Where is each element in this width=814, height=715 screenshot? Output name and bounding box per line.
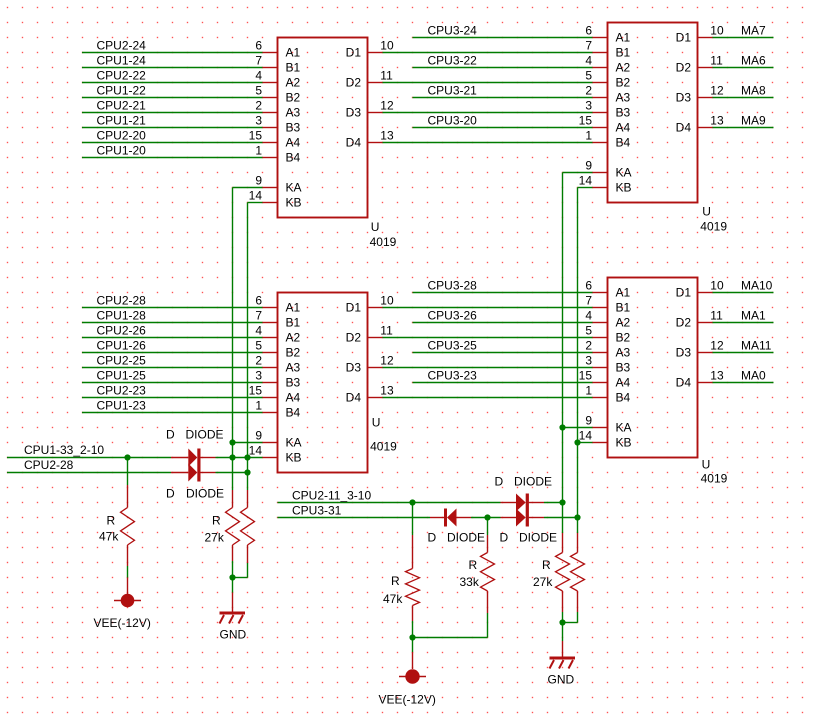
svg-text:14: 14 <box>249 444 263 458</box>
svg-text:B1: B1 <box>286 316 301 330</box>
svg-text:CPU2-28: CPU2-28 <box>24 458 74 472</box>
svg-text:A2: A2 <box>286 331 301 345</box>
svg-text:4019: 4019 <box>700 219 727 233</box>
svg-text:11: 11 <box>380 324 393 338</box>
svg-text:MA11: MA11 <box>741 339 772 353</box>
svg-text:GND: GND <box>548 673 575 687</box>
svg-text:KA: KA <box>616 421 632 435</box>
svg-text:B2: B2 <box>286 346 301 360</box>
svg-text:CPU1-28: CPU1-28 <box>97 309 147 323</box>
svg-text:D: D <box>428 531 437 545</box>
svg-text:DIODE: DIODE <box>514 475 552 489</box>
svg-text:A1: A1 <box>616 31 631 45</box>
svg-text:15: 15 <box>579 114 593 128</box>
svg-text:4019: 4019 <box>701 472 728 486</box>
svg-text:D2: D2 <box>346 331 362 345</box>
svg-text:3: 3 <box>585 99 592 113</box>
svg-text:6: 6 <box>585 279 592 293</box>
svg-text:KB: KB <box>616 436 632 450</box>
svg-text:4019: 4019 <box>370 440 397 454</box>
svg-text:MA0: MA0 <box>741 369 766 383</box>
svg-text:VEE(-12V): VEE(-12V) <box>94 616 151 630</box>
svg-text:1: 1 <box>585 129 592 143</box>
svg-text:DIODE: DIODE <box>186 427 224 441</box>
svg-text:B1: B1 <box>286 61 301 75</box>
svg-text:CPU2-28: CPU2-28 <box>97 294 147 308</box>
svg-text:D3: D3 <box>346 106 362 120</box>
svg-text:CPU1-22: CPU1-22 <box>97 84 147 98</box>
svg-text:A1: A1 <box>286 301 301 315</box>
svg-text:B2: B2 <box>616 76 631 90</box>
svg-text:A1: A1 <box>616 286 631 300</box>
svg-text:R: R <box>212 514 221 528</box>
svg-text:14: 14 <box>579 429 593 443</box>
svg-text:D: D <box>495 475 504 489</box>
svg-text:3: 3 <box>255 369 262 383</box>
svg-text:R: R <box>107 514 116 528</box>
svg-text:KB: KB <box>286 451 302 465</box>
svg-text:7: 7 <box>255 309 262 323</box>
svg-text:D1: D1 <box>346 301 362 315</box>
svg-text:A3: A3 <box>286 106 301 120</box>
svg-text:47k: 47k <box>383 592 403 606</box>
svg-text:D1: D1 <box>676 31 692 45</box>
svg-text:2: 2 <box>585 84 592 98</box>
svg-text:6: 6 <box>255 39 262 53</box>
svg-text:CPU3-26: CPU3-26 <box>428 309 478 323</box>
svg-text:CPU3-28: CPU3-28 <box>428 279 478 293</box>
svg-text:D3: D3 <box>676 91 692 105</box>
svg-text:1: 1 <box>255 399 262 413</box>
svg-text:A4: A4 <box>286 391 301 405</box>
svg-text:B1: B1 <box>616 46 631 60</box>
svg-text:A3: A3 <box>616 346 631 360</box>
svg-text:27k: 27k <box>533 575 553 589</box>
svg-text:CPU1-24: CPU1-24 <box>97 54 147 68</box>
svg-text:KA: KA <box>286 436 302 450</box>
svg-text:7: 7 <box>585 294 592 308</box>
svg-text:10: 10 <box>380 39 394 53</box>
svg-text:5: 5 <box>255 339 262 353</box>
svg-text:11: 11 <box>710 54 723 68</box>
svg-text:9: 9 <box>585 159 592 173</box>
svg-text:D2: D2 <box>676 316 692 330</box>
svg-text:9: 9 <box>585 414 592 428</box>
svg-text:A3: A3 <box>616 91 631 105</box>
svg-text:A1: A1 <box>286 46 301 60</box>
svg-text:13: 13 <box>380 384 394 398</box>
svg-text:D1: D1 <box>676 286 692 300</box>
svg-text:B1: B1 <box>616 301 631 315</box>
svg-text:5: 5 <box>255 84 262 98</box>
svg-text:3: 3 <box>585 354 592 368</box>
svg-text:CPU2-25: CPU2-25 <box>97 354 147 368</box>
svg-text:33k: 33k <box>460 575 480 589</box>
svg-text:4: 4 <box>585 309 592 323</box>
svg-text:CPU3-22: CPU3-22 <box>428 54 478 68</box>
svg-text:13: 13 <box>380 129 394 143</box>
svg-text:B4: B4 <box>286 151 301 165</box>
svg-text:14: 14 <box>579 174 593 188</box>
svg-text:4019: 4019 <box>370 235 397 249</box>
svg-text:D3: D3 <box>346 361 362 375</box>
svg-text:R: R <box>391 574 400 588</box>
svg-text:A2: A2 <box>616 61 631 75</box>
svg-text:D4: D4 <box>676 376 692 390</box>
svg-text:CPU1-20: CPU1-20 <box>97 144 147 158</box>
svg-text:D2: D2 <box>676 61 692 75</box>
svg-text:10: 10 <box>710 279 724 293</box>
svg-text:10: 10 <box>380 294 394 308</box>
svg-text:D4: D4 <box>346 136 362 150</box>
svg-text:B4: B4 <box>616 391 631 405</box>
svg-text:B3: B3 <box>286 376 301 390</box>
svg-text:9: 9 <box>255 429 262 443</box>
svg-text:5: 5 <box>585 69 592 83</box>
svg-text:B4: B4 <box>286 406 301 420</box>
svg-text:DIODE: DIODE <box>519 531 557 545</box>
svg-text:1: 1 <box>585 384 592 398</box>
svg-text:D2: D2 <box>346 76 362 90</box>
svg-text:MA8: MA8 <box>741 84 766 98</box>
svg-text:6: 6 <box>255 294 262 308</box>
svg-text:B3: B3 <box>286 121 301 135</box>
svg-text:D1: D1 <box>346 46 362 60</box>
svg-text:A2: A2 <box>286 76 301 90</box>
svg-text:15: 15 <box>249 384 263 398</box>
svg-text:MA10: MA10 <box>741 279 773 293</box>
svg-text:B2: B2 <box>286 91 301 105</box>
svg-text:CPU2-21: CPU2-21 <box>97 99 147 113</box>
svg-text:KA: KA <box>616 166 632 180</box>
svg-text:3: 3 <box>255 114 262 128</box>
svg-text:12: 12 <box>710 339 724 353</box>
svg-text:U: U <box>371 220 380 234</box>
svg-text:D3: D3 <box>676 346 692 360</box>
svg-text:R: R <box>542 558 551 572</box>
svg-text:2: 2 <box>255 99 262 113</box>
svg-text:CPU2-24: CPU2-24 <box>97 39 147 53</box>
svg-text:13: 13 <box>710 114 724 128</box>
svg-text:D4: D4 <box>676 121 692 135</box>
svg-text:CPU2-20: CPU2-20 <box>97 129 147 143</box>
svg-text:B4: B4 <box>616 136 631 150</box>
svg-text:12: 12 <box>380 99 394 113</box>
svg-text:15: 15 <box>579 369 593 383</box>
svg-text:CPU3-31: CPU3-31 <box>292 504 342 518</box>
svg-text:CPU1-26: CPU1-26 <box>97 339 147 353</box>
svg-text:27k: 27k <box>205 531 225 545</box>
svg-text:6: 6 <box>585 24 592 38</box>
svg-text:A4: A4 <box>616 121 631 135</box>
svg-text:R: R <box>469 558 478 572</box>
svg-text:KB: KB <box>286 196 302 210</box>
svg-text:5: 5 <box>585 324 592 338</box>
svg-text:2: 2 <box>255 354 262 368</box>
svg-text:U: U <box>702 204 711 218</box>
svg-text:DIODE: DIODE <box>447 531 485 545</box>
svg-text:7: 7 <box>255 54 262 68</box>
svg-text:9: 9 <box>255 174 262 188</box>
svg-text:11: 11 <box>380 69 393 83</box>
svg-text:15: 15 <box>249 129 263 143</box>
svg-text:CPU3-24: CPU3-24 <box>428 24 478 38</box>
svg-text:A4: A4 <box>616 376 631 390</box>
svg-text:4: 4 <box>255 324 262 338</box>
svg-text:D: D <box>166 487 175 501</box>
svg-text:CPU3-23: CPU3-23 <box>428 369 478 383</box>
svg-text:B3: B3 <box>616 106 631 120</box>
svg-text:CPU3-21: CPU3-21 <box>428 84 478 98</box>
svg-text:MA9: MA9 <box>741 114 766 128</box>
svg-text:KB: KB <box>616 181 632 195</box>
svg-text:B2: B2 <box>616 331 631 345</box>
svg-text:MA1: MA1 <box>741 309 766 323</box>
svg-text:14: 14 <box>249 189 263 203</box>
svg-text:CPU2-26: CPU2-26 <box>97 324 147 338</box>
svg-text:1: 1 <box>255 144 262 158</box>
svg-text:VEE(-12V): VEE(-12V) <box>379 693 436 707</box>
svg-text:CPU3-25: CPU3-25 <box>428 339 478 353</box>
svg-text:12: 12 <box>380 354 394 368</box>
svg-text:MA6: MA6 <box>741 54 766 68</box>
svg-text:4: 4 <box>255 69 262 83</box>
svg-text:A3: A3 <box>286 361 301 375</box>
svg-text:A4: A4 <box>286 136 301 150</box>
svg-text:KA: KA <box>286 181 302 195</box>
svg-text:CPU1-21: CPU1-21 <box>97 114 147 128</box>
svg-text:CPU1-23: CPU1-23 <box>97 399 147 413</box>
svg-text:12: 12 <box>710 84 724 98</box>
svg-text:U: U <box>372 415 381 429</box>
svg-text:47k: 47k <box>99 530 119 544</box>
svg-text:11: 11 <box>710 309 723 323</box>
svg-text:CPU2-23: CPU2-23 <box>97 384 147 398</box>
svg-text:2: 2 <box>585 339 592 353</box>
svg-text:13: 13 <box>710 369 724 383</box>
svg-text:CPU2-22: CPU2-22 <box>97 69 147 83</box>
svg-text:7: 7 <box>585 39 592 53</box>
svg-text:D: D <box>500 531 509 545</box>
svg-text:CPU1-33_2-10: CPU1-33_2-10 <box>24 443 104 457</box>
svg-text:B3: B3 <box>616 361 631 375</box>
svg-text:MA7: MA7 <box>741 24 766 38</box>
svg-text:D: D <box>166 427 175 441</box>
svg-text:4: 4 <box>585 54 592 68</box>
svg-text:CPU3-20: CPU3-20 <box>428 114 478 128</box>
svg-text:CPU1-25: CPU1-25 <box>97 369 147 383</box>
svg-text:A2: A2 <box>616 316 631 330</box>
svg-text:DIODE: DIODE <box>186 487 224 501</box>
svg-text:GND: GND <box>220 628 247 642</box>
svg-text:D4: D4 <box>346 391 362 405</box>
svg-text:U: U <box>702 457 711 471</box>
svg-text:10: 10 <box>710 24 724 38</box>
svg-text:CPU2-11_3-10: CPU2-11_3-10 <box>292 489 371 503</box>
